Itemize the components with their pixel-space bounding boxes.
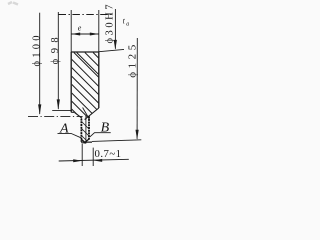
svg-text:ϕ30H7: ϕ30H7 [104,5,115,44]
svg-text:e: e [78,23,82,32]
svg-text:0.7~1: 0.7~1 [95,148,122,160]
svg-text:B: B [101,120,110,135]
svg-text:ϕ100: ϕ100 [32,36,43,67]
svg-text:ϕ125: ϕ125 [126,44,138,78]
svg-text:A: A [59,121,69,136]
svg-text:t: t [123,17,126,26]
svg-text:a: a [126,22,129,28]
svg-text:ϕ98: ϕ98 [50,37,61,64]
